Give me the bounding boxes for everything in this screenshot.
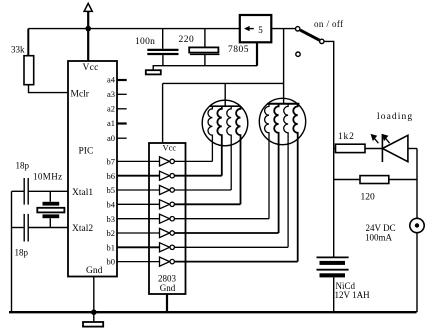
row b6 / buffer 2 [117,175,160,177]
svg-text:on / off: on / off [314,19,344,29]
capacitor C4 18p [23,214,25,242]
svg-text:220: 220 [179,35,195,45]
LED D1 [381,134,383,162]
svg-text:10MHz: 10MHz [33,172,63,182]
wire 5V rail [28,28,240,30]
svg-text:24V DC: 24V DC [366,223,396,233]
ground main symbol [93,313,95,322]
svg-text:PIC: PIC [79,147,94,157]
wire to 1k2 [334,148,336,150]
motor M1 stepper [202,100,248,146]
motor M2 stepper [259,98,305,144]
svg-text:5: 5 [258,25,263,35]
svg-text:loading: loading [377,112,413,122]
battery B1 NiCd [317,256,349,258]
svg-text:b3: b3 [107,214,116,224]
ground local symbol [152,66,154,71]
resistor R2 1k2 [336,144,366,152]
svg-text:b5: b5 [107,185,116,195]
motor M2 coil 3 [284,104,288,248]
svg-text:120: 120 [361,193,376,203]
motor M2 coil 1 [265,104,269,219]
pin a1 [117,122,127,124]
motor M1 coil 3 [227,106,231,190]
svg-text:a1: a1 [107,118,115,128]
svg-text:b6: b6 [107,171,116,181]
node gnd junction dot [91,309,97,315]
wire Xtal2 [12,227,25,229]
svg-text:Xtal1: Xtal1 [72,188,93,198]
svg-text:33k: 33k [11,45,25,55]
pin a0 [117,137,127,139]
row b4 / buffer 4 [117,203,160,205]
resistor R3 120 [334,179,360,181]
row b1 / buffer 7 [117,246,160,248]
wire ULN gnd [166,294,168,312]
wire PIC gnd [93,277,95,313]
svg-text:7805: 7805 [228,45,249,55]
wire 1k2 to LED [365,148,382,150]
row b3 / buffer 5 [117,218,160,220]
wire Xtal1 [12,190,25,192]
svg-text:b4: b4 [107,199,116,209]
svg-text:Vcc: Vcc [162,143,176,153]
Vcc supply symbol (triangle) [84,3,92,11]
resistor R1 33k [24,56,34,85]
svg-text:18p: 18p [15,248,29,258]
svg-text:1k2: 1k2 [338,132,355,142]
wire unregulated junction down to motor rail [283,29,285,104]
wire rail to ULN Vcc [162,83,164,143]
wire main ground rail [9,311,417,313]
wire 220u to gnd rail [204,54,206,65]
wire 7805 input [271,28,295,30]
wire LED to right rail [408,148,417,150]
svg-text:a4: a4 [107,75,116,85]
svg-text:18p: 18p [16,161,30,171]
svg-text:Mclr: Mclr [71,90,90,100]
wire right rail [416,149,418,219]
crystal X1 10MHz [49,191,51,202]
svg-text:b0: b0 [107,257,116,267]
pin a4 [117,79,127,81]
row b7 / buffer 1 [117,160,160,162]
wire 33k to Mclr [29,85,69,93]
wire 5V rail to 220u [204,29,206,48]
svg-text:100n: 100n [135,37,155,47]
wire 100n to gnd rail [162,55,164,66]
wire motor supply rail [163,82,284,84]
motor M2 coil 2 [274,104,278,233]
svg-text:a2: a2 [107,103,115,113]
svg-text:b7: b7 [107,157,116,167]
regulator U2 7805 [240,15,271,42]
svg-text:Vcc: Vcc [83,63,99,73]
motor M1 coil 4 [236,106,240,204]
capacitor C2 220u electrolytic [189,47,218,52]
motor M1 coil 2 [217,106,221,176]
IC U1 PIC [68,61,117,277]
svg-text:a3: a3 [107,89,115,99]
wire local gnd sub-rail [153,65,258,67]
svg-text:100mA: 100mA [365,233,393,243]
pin a2 [117,108,127,110]
wire 5V rail to 33k [27,29,29,56]
wire rail to motor1 common [224,83,226,106]
svg-text:Gnd: Gnd [86,266,103,276]
node 5V junction dot [85,26,91,32]
wire 7805 gnd pin [256,42,258,65]
wire Vcc triangle to PIC Vcc pin [87,11,89,61]
svg-text:a0: a0 [107,133,115,143]
svg-text:Xtal2: Xtal2 [72,224,93,234]
wire 5V rail to 100n [162,29,164,49]
svg-text:b1: b1 [107,242,116,252]
row b2 / buffer 6 [117,232,160,234]
row b0 / buffer 8 [117,261,160,263]
pin a3 [117,93,127,95]
row b5 / buffer 3 [117,189,160,191]
svg-text:Gnd: Gnd [160,283,176,293]
motor M1 coil 1 [208,106,212,161]
wire left gnd rail [11,191,13,312]
svg-text:12V 1AH: 12V 1AH [335,290,371,300]
capacitor C3 18p [23,178,25,205]
IC U3 ULN2803 [149,143,186,294]
capacitor C1 100n [147,49,178,51]
svg-text:b2: b2 [107,228,116,238]
wire switch to battery rail [324,41,333,257]
motor M2 coil 4 [293,104,297,262]
ULN buffers and row wires [117,157,298,266]
connector J1 24V DC [410,218,424,232]
